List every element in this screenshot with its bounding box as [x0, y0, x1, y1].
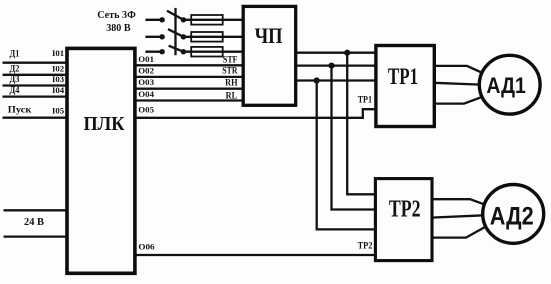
svg-text:I03: I03 [52, 74, 64, 84]
svg-text:O03: O03 [138, 77, 154, 87]
svg-text:Д1: Д1 [10, 49, 20, 59]
svg-text:ЧП: ЧП [255, 23, 283, 48]
svg-text:O05: O05 [138, 104, 154, 114]
svg-text:I02: I02 [52, 64, 64, 74]
svg-text:АД1: АД1 [486, 73, 526, 98]
svg-text:STR: STR [222, 66, 238, 76]
svg-text:ТР2: ТР2 [389, 197, 421, 223]
svg-text:24 В: 24 В [24, 216, 45, 228]
svg-text:АД2: АД2 [490, 202, 534, 230]
svg-text:ТР1: ТР1 [358, 94, 372, 105]
svg-text:ТР1: ТР1 [388, 64, 418, 89]
svg-text:Д3: Д3 [10, 74, 20, 84]
svg-text:I04: I04 [52, 85, 65, 95]
svg-text:ПЛК: ПЛК [84, 114, 125, 135]
svg-text:Д4: Д4 [10, 85, 20, 95]
svg-text:Сеть 3Ф: Сеть 3Ф [97, 9, 136, 21]
svg-text:ТР2: ТР2 [358, 240, 373, 251]
svg-text:O04: O04 [138, 89, 154, 99]
svg-text:Пуск: Пуск [8, 105, 32, 115]
svg-text:O06: O06 [138, 242, 154, 252]
svg-text:380 В: 380 В [106, 22, 131, 34]
svg-text:STF: STF [223, 54, 238, 64]
svg-text:I05: I05 [52, 105, 64, 115]
svg-text:O02: O02 [138, 65, 154, 75]
svg-text:RL: RL [226, 91, 238, 101]
svg-text:Д2: Д2 [10, 63, 20, 73]
svg-text:RH: RH [225, 78, 237, 88]
svg-text:I01: I01 [52, 48, 64, 58]
svg-text:O01: O01 [138, 54, 154, 64]
